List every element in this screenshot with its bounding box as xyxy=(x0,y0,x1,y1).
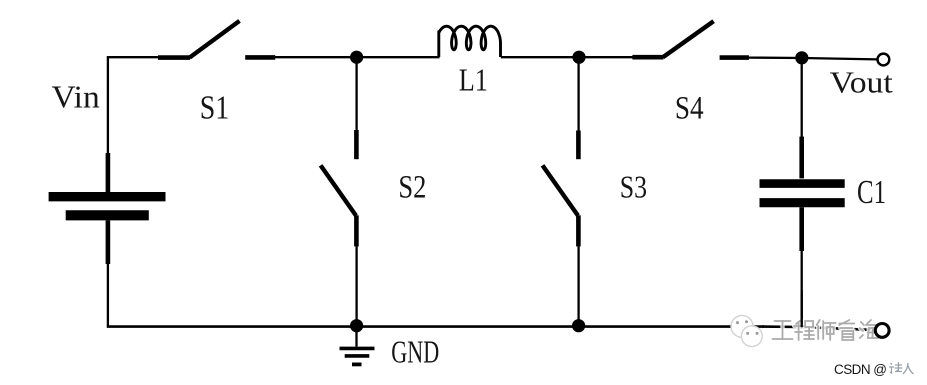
wire: C1 lower lead to bottom rail (visible over watermark) xyxy=(801,290,803,327)
watermark logo xyxy=(731,315,762,346)
svg-text:L1: L1 xyxy=(459,62,488,98)
ground symbol xyxy=(340,330,375,364)
switch S4 xyxy=(632,21,749,57)
wire: L1 to S4 left terminal xyxy=(501,56,633,58)
wire: node B down to S3 upper terminal xyxy=(577,57,579,131)
wire: S2 lower terminal to bottom rail xyxy=(355,245,357,326)
watermark text CSDN @诗 人 xyxy=(834,362,914,377)
wire: S1 right terminal to inductor L1 xyxy=(274,56,440,58)
svg-text:S1: S1 xyxy=(200,90,230,127)
terminal: Vout open circle xyxy=(878,54,890,66)
node: junction of S2, ground rail and GND symbol xyxy=(350,319,363,332)
svg-text:C1: C1 xyxy=(857,174,886,211)
switch S3 xyxy=(543,131,579,247)
wire: S3 lower terminal to bottom rail xyxy=(577,245,579,326)
wire: Vin positive lead up and right to S1 left terminal xyxy=(108,57,159,156)
watermark text 工程师看海 xyxy=(773,320,879,340)
wire: S4 right terminal to Vout node xyxy=(748,58,877,60)
wire: bottom ground rail xyxy=(107,325,764,328)
inductor L1 xyxy=(439,26,501,57)
wire: C1 lower lead to bottom rail xyxy=(801,250,803,327)
wire: Vout node down to C1 upper lead xyxy=(801,58,803,138)
capacitor C1 xyxy=(760,137,845,251)
svg-text:CSDN @: CSDN @ xyxy=(834,362,887,377)
svg-text:GND: GND xyxy=(391,333,439,369)
node: junction of L1, S3 and S4 xyxy=(572,51,585,64)
switch S2 xyxy=(321,130,357,246)
wire: bottom rail right portion to output terminal xyxy=(762,327,876,331)
svg-text:Vout: Vout xyxy=(830,64,894,99)
switch S1 xyxy=(158,21,275,58)
node: junction of S1, S2 and L1 xyxy=(350,51,363,64)
wire: node A down to S2 upper terminal xyxy=(355,57,357,131)
wire: battery negative lead down to bottom rail xyxy=(107,262,109,327)
battery V1 (Vin source) xyxy=(49,153,166,264)
terminal: output return open circle xyxy=(875,324,889,338)
svg-text:S4: S4 xyxy=(675,91,704,127)
node: junction of S4, C1 and Vout terminal xyxy=(795,51,808,64)
svg-text:S3: S3 xyxy=(620,168,647,204)
node: junction of S3 and ground rail xyxy=(572,319,585,332)
svg-text:Vin: Vin xyxy=(52,79,100,115)
svg-text:S2: S2 xyxy=(398,169,426,205)
